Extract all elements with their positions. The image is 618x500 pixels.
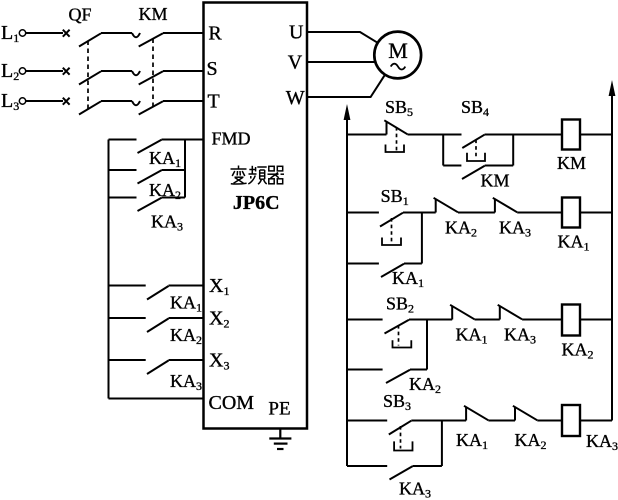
pushbutton SB3 (NO) <box>383 391 413 451</box>
wire bus to COM <box>109 398 205 400</box>
coil KM <box>557 120 586 174</box>
svg-text:KA3: KA3 <box>151 212 183 234</box>
svg-text:SB5: SB5 <box>385 97 413 119</box>
svg-text:V: V <box>288 52 303 74</box>
svg-text:X3: X3 <box>209 350 229 373</box>
svg-text:FMD: FMD <box>212 129 251 149</box>
wire SB3 parallel drop <box>441 421 443 467</box>
wire SB4 parallel drop left <box>442 135 444 166</box>
terminal L2 <box>1 60 26 83</box>
wire rung4 mid1 <box>411 420 466 422</box>
X3 relay contact KA3 <box>109 360 203 393</box>
wire rung3 mid2 <box>475 319 500 321</box>
wire left bus vertical <box>108 140 110 399</box>
wire U to motor <box>307 32 378 43</box>
svg-text:SB4: SB4 <box>461 97 489 119</box>
contact KA2 (NC) <box>513 406 547 452</box>
wire rung2 mid1 <box>403 212 436 214</box>
wire KA2 to X2 <box>169 317 205 319</box>
wire QF to KM pole2 <box>101 70 132 72</box>
svg-text:M: M <box>388 38 408 63</box>
wire KA3 branch to tie <box>162 197 186 199</box>
svg-text:L3: L3 <box>1 90 19 113</box>
svg-text:KM: KM <box>138 4 167 24</box>
pushbutton SB2 (NO) <box>385 294 415 348</box>
器 <box>268 166 285 184</box>
X2 relay contact KA2 <box>109 318 203 347</box>
pushbutton SB1 (NO) <box>380 186 409 245</box>
wire right control bus <box>611 94 613 421</box>
svg-text:L2: L2 <box>1 60 19 83</box>
svg-text:KA1: KA1 <box>392 268 424 290</box>
wire rung4 mid2 <box>488 420 515 422</box>
svg-text:KA1: KA1 <box>558 232 590 254</box>
svg-text:X2: X2 <box>209 308 229 331</box>
wire QF to KM pole1 <box>101 32 132 34</box>
svg-text:QF: QF <box>68 5 91 25</box>
svg-text:KA1: KA1 <box>170 293 202 315</box>
contactor KM main contacts <box>132 4 168 115</box>
svg-text:KA3: KA3 <box>499 218 531 240</box>
motor M <box>374 32 421 79</box>
svg-text:U: U <box>289 22 304 44</box>
svg-text:KA2: KA2 <box>170 325 202 347</box>
wire KA1 branch right <box>404 263 422 265</box>
wire KA2 branch to tie <box>162 169 186 171</box>
wire V to motor <box>307 61 375 63</box>
svg-text:S: S <box>207 58 218 80</box>
wire rung4 to coil <box>537 420 562 422</box>
svg-text:JP6C: JP6C <box>233 192 280 214</box>
wire W to motor <box>307 75 385 97</box>
wire rung3 left <box>347 319 383 321</box>
wire KA3 branch left <box>347 465 387 467</box>
wire SB4 parallel drop right <box>512 135 514 166</box>
pushbutton SB5 (NC) <box>384 97 413 152</box>
contact KA1 (NO holding) <box>381 264 424 290</box>
wire coil KM to right bus <box>580 134 612 136</box>
svg-text:W: W <box>286 87 305 109</box>
wire KA3 to X3 <box>169 359 205 361</box>
ground PE <box>269 429 291 449</box>
inverter U1 box 变频器 JP6C <box>204 3 308 429</box>
wire left control bus <box>346 118 348 466</box>
svg-text:T: T <box>208 91 220 113</box>
wire KA1 to X1 <box>169 285 205 287</box>
wire rung4 left <box>347 420 387 422</box>
wire KA1 to FMD <box>162 139 205 141</box>
contact KA3 (NC) <box>493 198 531 240</box>
wire rung2 to coil <box>517 212 562 214</box>
contact KA1 (NC) <box>456 406 488 452</box>
svg-text:L1: L1 <box>1 22 19 45</box>
X1 relay contact KA1 <box>109 286 203 315</box>
terminal L1 <box>1 22 26 45</box>
svg-text:KA3: KA3 <box>399 479 431 500</box>
svg-text:KA3: KA3 <box>586 431 618 453</box>
svg-text:KA2: KA2 <box>149 180 181 202</box>
wire QF to KM pole3 <box>101 100 132 102</box>
wire rung3 to coil <box>522 319 562 321</box>
wire SB2 parallel drop <box>426 320 428 370</box>
svg-text:KA1: KA1 <box>456 430 488 452</box>
contact KA3 (NO holding) <box>390 466 432 500</box>
svg-text:KA2: KA2 <box>515 430 547 452</box>
pushbutton SB4 (NO) <box>461 97 489 161</box>
svg-text:KA1: KA1 <box>149 148 181 170</box>
contact KA3 (NC) <box>498 305 536 347</box>
label 变频器 (hand-drawn CJK) <box>231 166 285 185</box>
wire FMD tie vertical <box>184 140 186 198</box>
coil KA2 <box>562 305 594 362</box>
svg-text:SB2: SB2 <box>386 294 414 316</box>
wire coil KA1 to right bus <box>580 212 612 214</box>
terminal L3 <box>1 90 26 113</box>
svg-text:KA3: KA3 <box>504 325 536 347</box>
wire KA3 branch right <box>413 465 442 467</box>
频 <box>248 166 266 184</box>
wire coil KA3 to right bus <box>580 420 612 422</box>
svg-text:PE: PE <box>268 399 290 420</box>
coil KA1 <box>558 198 590 254</box>
wire KM branch right <box>485 165 514 167</box>
power arrow left control bus <box>344 104 351 120</box>
svg-text:KA2: KA2 <box>445 218 477 240</box>
svg-text:KA2: KA2 <box>409 374 441 396</box>
wire rung2 mid2 <box>458 212 495 214</box>
wire L3 to QF <box>26 100 63 102</box>
wire SB1 parallel drop <box>421 213 423 264</box>
wire KA2 branch left <box>347 369 383 371</box>
wire L2 to QF <box>26 70 63 72</box>
wire rung1 mid <box>408 134 462 136</box>
svg-text:KA1: KA1 <box>456 325 488 347</box>
svg-text:KA2: KA2 <box>562 340 594 362</box>
wire KM to S <box>163 70 204 72</box>
wire L1 to QF <box>26 32 63 34</box>
FMD relay contact KA1 <box>109 140 182 171</box>
变 <box>231 166 247 185</box>
svg-text:SB3: SB3 <box>383 391 411 413</box>
coil KA3 <box>562 405 618 453</box>
contact KA2 (NO holding) <box>386 370 441 396</box>
wire rung2 left <box>347 212 379 214</box>
svg-text:KA3: KA3 <box>170 371 202 393</box>
svg-text:X1: X1 <box>209 275 229 298</box>
svg-text:R: R <box>208 23 222 45</box>
FMD relay contact KA3 <box>109 198 184 234</box>
FMD relay contact KA2 <box>109 170 182 202</box>
wire KM branch left <box>443 165 461 167</box>
wire coil KA2 to right bus <box>580 319 612 321</box>
svg-text:KM: KM <box>557 153 586 173</box>
wire KA2 branch right <box>410 369 427 371</box>
power arrow right control bus <box>609 80 616 96</box>
wire rung1 left <box>347 134 387 136</box>
svg-text:KM: KM <box>480 171 509 191</box>
wire KM to R <box>163 32 204 34</box>
contact KA1 (NC) <box>450 305 487 347</box>
contact KA2 (NC) <box>434 198 477 240</box>
svg-text:SB1: SB1 <box>381 186 409 208</box>
wire KM to T <box>163 100 204 102</box>
breaker QF <box>63 5 101 115</box>
svg-text:COM: COM <box>209 392 255 414</box>
wire rung3 mid1 <box>409 319 452 321</box>
contact KM (NO aux) <box>462 166 510 191</box>
wire KA1 branch left <box>347 263 379 265</box>
wire rung1 to coil <box>485 134 563 136</box>
